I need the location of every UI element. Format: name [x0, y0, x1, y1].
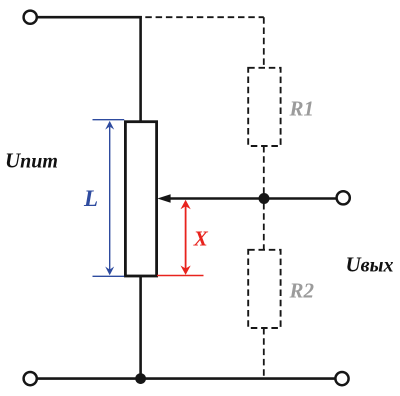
dashed wire bottom: [263, 328, 265, 378]
dimension X arrow up: [181, 200, 191, 209]
svg-text:R2: R2: [289, 279, 315, 303]
wire vertical upper: [139, 16, 142, 122]
svg-text:R1: R1: [289, 96, 315, 120]
dimension L tick bottom: [93, 275, 125, 277]
junction node: [259, 193, 270, 204]
svg-text:L: L: [83, 186, 98, 211]
resistor R2: [248, 250, 280, 328]
resistor R1: [248, 68, 280, 146]
dimension L arrow up: [105, 121, 114, 130]
junction bottom: [135, 373, 146, 384]
svg-text:X: X: [193, 227, 209, 251]
terminal bottom-right: [335, 372, 348, 385]
potentiometer body: [125, 122, 156, 276]
dimension L line: [109, 126, 111, 270]
wire bottom horizontal: [37, 377, 335, 380]
svg-text:Uпит: Uпит: [5, 149, 58, 173]
dashed wire right upper: [263, 17, 265, 67]
wiper wire: [166, 197, 337, 200]
wire top horizontal: [37, 16, 142, 19]
dashed wire top: [145, 16, 263, 18]
terminal bottom-left: [24, 372, 37, 385]
svg-text:Uвых: Uвых: [346, 253, 394, 277]
terminal right-middle: [337, 191, 350, 204]
dimension L arrow down: [105, 267, 114, 276]
dimension X line: [185, 206, 187, 269]
dimension X arrow down: [181, 266, 191, 275]
X baseline tick: [157, 275, 204, 277]
dashed wire mid lower: [263, 203, 265, 250]
wire vertical lower: [139, 276, 142, 379]
wiper arrowhead: [157, 194, 170, 203]
dimension L tick top: [93, 119, 125, 121]
terminal top-left: [24, 11, 37, 24]
dashed wire mid upper: [263, 146, 265, 194]
